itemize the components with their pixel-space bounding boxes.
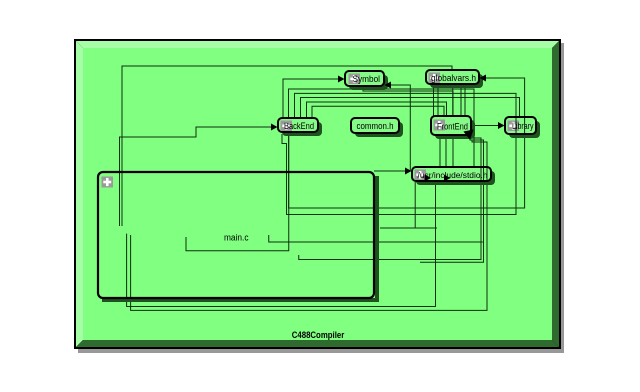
wire left staircase to BackEnd	[120, 127, 273, 226]
wire FrontEnd bottom to stdio top	[439, 135, 441, 167]
node shadows	[282, 74, 540, 185]
arrows inside stdio	[425, 175, 432, 182]
svg-text:main.c: main.c	[224, 233, 249, 243]
node globalvars.h	[426, 70, 479, 84]
wire fan6 BackEnd to FrontEnd top	[312, 106, 444, 118]
wire long top	[122, 66, 452, 226]
main panel C488Compiler: black frame	[74, 39, 561, 349]
wire FrontEnd corner to right cluster 2	[420, 138, 484, 262]
wire FrontEnd corner to right cluster 1	[299, 136, 481, 260]
svg-text:BackEnd: BackEnd	[284, 121, 314, 131]
main.c shadow (L-shape along bottom/right)	[102, 176, 379, 302]
wire fan5 BackEnd to FrontEnd top	[307, 102, 447, 118]
arrow into Symbol right	[385, 82, 392, 89]
node Library	[505, 117, 536, 134]
svg-text:common.h: common.h	[357, 121, 394, 131]
wire globalvars to FrontEnd verticals	[433, 84, 435, 116]
wire Symbol bottom to stdio top	[363, 86, 453, 167]
wire stdio bottom to under-box line	[127, 182, 436, 307]
wire main.c to stdio arrow feed	[374, 170, 407, 172]
arrow into FrontEnd corner	[464, 130, 474, 141]
svg-text:globalvars.h: globalvars.h	[431, 73, 476, 83]
wire stdio bottom bridge	[414, 182, 416, 228]
svg-text:FrontEnd: FrontEnd	[437, 122, 468, 132]
wire tick to main.c label	[269, 235, 483, 242]
node Symbol	[345, 71, 384, 86]
wire bracket under main.c label	[186, 134, 289, 251]
arrow into Library left	[498, 122, 505, 129]
wire fan4 BackEnd to Library top	[301, 98, 520, 119]
panel bevel dark (bottom/right)	[76, 340, 559, 347]
arrowheads	[271, 75, 505, 182]
svg-text:Library: Library	[512, 121, 534, 131]
wire Symbol right to stdio left	[385, 85, 410, 171]
node main.c (transparent)	[98, 172, 374, 298]
node BackEnd	[278, 118, 318, 132]
arrow into BackEnd left	[271, 124, 278, 131]
arrow into stdio left	[405, 168, 412, 175]
drop shadow of main panel	[78, 43, 564, 353]
arrow into Symbol left	[338, 76, 345, 83]
svg-text:Symbol: Symbol	[353, 74, 381, 84]
wire fan2 BackEnd to stdio	[289, 89, 475, 167]
wire globalvars right to BackEnd bottom	[289, 78, 525, 208]
wire fan1 BackEnd to Symbol	[283, 79, 339, 118]
node common.h	[351, 118, 399, 133]
panel bevel light (top/left)	[76, 41, 559, 48]
svg-text:C488Compiler: C488Compiler	[292, 330, 345, 341]
wire bridge under stdio	[380, 227, 437, 229]
node FrontEnd	[431, 116, 471, 135]
arcs over nodes: verticals crossing Library	[481, 118, 525, 180]
wire FrontEnd corner to right cluster 3	[131, 140, 487, 310]
wire fan3 BackEnd loop via Library column	[282, 93, 516, 214]
node /usr/include/stdio.h	[412, 167, 491, 181]
arrow into globalvars right	[480, 75, 487, 82]
wire FrontEnd to Library	[471, 125, 500, 127]
panel interior	[83, 48, 552, 340]
